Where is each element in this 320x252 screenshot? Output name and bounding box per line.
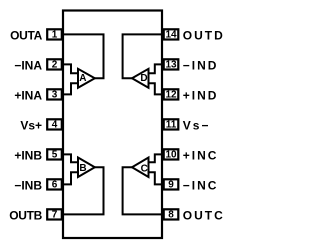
svg-text:7: 7	[52, 209, 58, 220]
wire pin8 OUTC to op-amp C output	[123, 167, 163, 214]
svg-text:13: 13	[165, 59, 177, 70]
svg-text:B: B	[79, 163, 86, 174]
svg-text:10: 10	[165, 149, 177, 160]
svg-text:OUTC: OUTC	[183, 209, 225, 223]
pin 11 box	[164, 119, 179, 129]
svg-text:1: 1	[52, 29, 58, 40]
svg-text:+INC: +INC	[183, 149, 219, 163]
pin 4 box	[47, 119, 62, 129]
svg-text:2: 2	[52, 59, 58, 70]
wire pin9 -INC to op-amp C inverting input	[149, 172, 164, 184]
pin 10 box	[164, 149, 179, 159]
IC body U1 (DIP-14 outline)	[63, 11, 162, 239]
pin 9 box	[164, 179, 179, 189]
svg-text:6: 6	[52, 179, 58, 190]
wire pin10 +INC to op-amp C non-inverting input	[149, 154, 164, 162]
wire pin7 OUTB to op-amp B output	[62, 167, 104, 214]
svg-text:+INB: +INB	[14, 149, 42, 163]
svg-text:−INC: −INC	[183, 179, 219, 193]
pin 2 box	[47, 59, 62, 69]
pin 12 box	[164, 89, 179, 99]
pin 8 box	[164, 209, 179, 219]
svg-text:+INA: +INA	[14, 89, 42, 103]
wire pin5 +INB to op-amp B non-inverting input	[62, 154, 78, 162]
pin 6 box	[47, 179, 62, 189]
wire pin3 +INA to op-amp A non-inverting input	[62, 83, 78, 94]
svg-text:5: 5	[52, 149, 58, 160]
svg-text:11: 11	[166, 119, 177, 130]
pin 5 box	[47, 149, 62, 159]
wire pin14 OUTD to op-amp D output	[123, 34, 163, 78]
wire pin12 +IND to op-amp D non-inverting input	[149, 83, 164, 94]
svg-text:9: 9	[168, 179, 174, 190]
svg-text:4: 4	[52, 119, 58, 130]
svg-text:Vs−: Vs−	[183, 119, 211, 133]
pin 3 box	[47, 89, 62, 99]
svg-text:14: 14	[165, 29, 177, 40]
pin 1 box	[47, 29, 62, 39]
svg-text:12: 12	[165, 89, 177, 100]
svg-text:OUTD: OUTD	[183, 29, 225, 43]
svg-text:C: C	[141, 163, 148, 174]
svg-text:Vs+: Vs+	[20, 119, 42, 133]
op-amp A triangle	[78, 69, 95, 88]
pin 13 box	[164, 59, 179, 69]
svg-text:−IND: −IND	[183, 59, 219, 73]
wire pin6 -INB to op-amp B inverting input	[62, 172, 78, 184]
svg-text:−INA: −INA	[14, 59, 42, 73]
pin 14 box	[164, 29, 179, 39]
svg-text:8: 8	[168, 209, 174, 220]
svg-text:OUTA: OUTA	[10, 29, 43, 43]
svg-text:+IND: +IND	[183, 89, 219, 103]
svg-text:A: A	[79, 73, 86, 84]
svg-text:−INB: −INB	[14, 179, 42, 193]
svg-text:OUTB: OUTB	[9, 209, 42, 223]
wire pin2 -INA to op-amp A inverting input	[62, 64, 78, 73]
wire pin13 -IND to op-amp D inverting input	[149, 64, 164, 73]
op-amp B triangle	[78, 158, 95, 178]
op-amp D triangle	[132, 69, 149, 88]
wire pin1 OUTA to op-amp A output	[62, 34, 104, 78]
pin 7 box	[47, 209, 62, 219]
op-amp C triangle	[132, 158, 149, 178]
svg-text:3: 3	[52, 89, 58, 100]
svg-text:D: D	[140, 73, 147, 84]
